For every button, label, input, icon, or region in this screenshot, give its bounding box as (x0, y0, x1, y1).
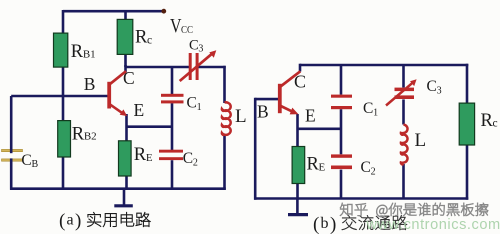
svg-text:E: E (146, 152, 153, 164)
svg-text:3: 3 (437, 85, 442, 96)
svg-text:CC: CC (181, 24, 193, 36)
svg-text:1: 1 (197, 102, 202, 113)
svg-text:b: b (321, 215, 329, 232)
svg-text:c: c (147, 34, 152, 46)
svg-text:C: C (123, 68, 135, 88)
svg-text:(: ( (313, 214, 319, 234)
svg-text:L: L (415, 130, 427, 151)
svg-text:2: 2 (371, 166, 376, 177)
svg-text:C: C (183, 150, 193, 167)
svg-text:E: E (134, 100, 145, 120)
svg-text:): ) (75, 211, 81, 232)
svg-text:B: B (84, 74, 96, 94)
svg-text:2: 2 (193, 157, 198, 168)
svg-text:B: B (257, 102, 269, 122)
svg-text:1: 1 (373, 107, 378, 118)
svg-text:): ) (330, 214, 336, 234)
svg-text:C: C (189, 37, 199, 53)
svg-text:3: 3 (198, 43, 203, 54)
svg-text:www.cntronics.com: www.cntronics.com (366, 217, 500, 233)
svg-text:L: L (235, 106, 247, 127)
svg-text:B2: B2 (84, 131, 97, 143)
svg-text:C: C (363, 100, 373, 117)
svg-text:C: C (21, 152, 31, 169)
svg-text:C: C (294, 72, 306, 92)
svg-text:C: C (427, 78, 437, 95)
svg-text:B: B (32, 159, 39, 170)
svg-text:a: a (67, 212, 74, 229)
svg-text:C: C (361, 159, 371, 176)
svg-text:(: ( (59, 211, 65, 232)
svg-text:c: c (493, 118, 498, 130)
svg-text:C: C (187, 95, 197, 112)
svg-text:E: E (305, 106, 316, 126)
svg-text:E: E (319, 162, 326, 174)
svg-text:B1: B1 (83, 49, 96, 61)
